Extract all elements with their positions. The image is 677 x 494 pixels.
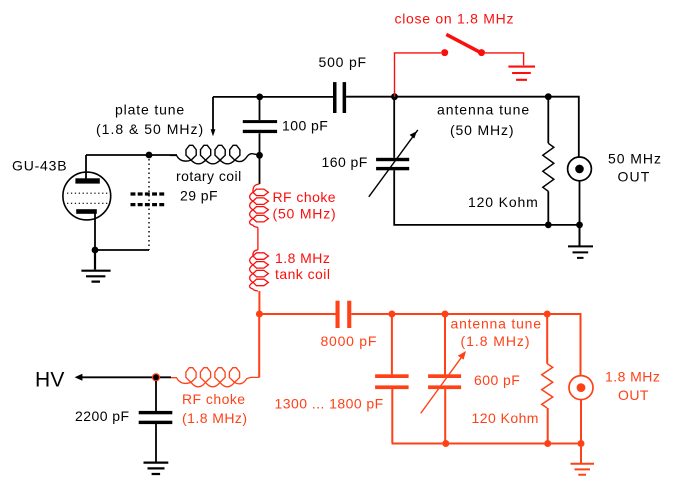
svg-text:close on 1.8 MHz: close on 1.8 MHz [395,11,515,27]
svg-text:plate tune: plate tune [115,102,185,118]
svg-text:(50 MHz): (50 MHz) [450,122,514,138]
junction dot (switch tap) [391,93,398,100]
tube anode wire [85,155,87,179]
wire plate to coil [86,154,177,156]
wire switch to ground [485,53,524,65]
resistor 120 Kohm (1.8 MHz) [542,364,553,408]
tube cathode bar [76,209,97,214]
svg-text:OUT: OUT [618,387,649,403]
svg-text:8000 pF: 8000 pF [321,333,378,349]
svg-text:(1.8 MHz): (1.8 MHz) [461,333,531,349]
wire switch riser [395,53,442,97]
inductor rotary coil (variable plate-tune coil) [170,145,260,164]
wire connector bottom [579,181,581,225]
arrow of 600 pF [421,356,463,413]
svg-text:RF choke: RF choke [273,189,337,205]
svg-text:rotary coil: rotary coil [176,168,242,184]
capacitor 600 pF (variable, antenna tune 1.8 MHz) [428,374,461,378]
svg-text:tank coil: tank coil [275,266,330,282]
svg-text:100 pF: 100 pF [282,118,328,134]
svg-text:120 Kohm: 120 Kohm [472,410,539,426]
junction dot (resistor bottom) [545,222,552,229]
tube cathode wire [94,214,96,251]
capacitor 100 pF [243,120,277,123]
arrow of 160 pF [369,130,418,197]
svg-text:600 pF: 600 pF [474,372,520,388]
switch pole dot [441,49,448,56]
wire 600 pF branch [444,314,446,444]
svg-text:50 MHz: 50 MHz [608,151,662,167]
svg-text:1300 ... 1800 pF: 1300 ... 1800 pF [275,396,384,412]
svg-text:120 Kohm: 120 Kohm [468,194,539,210]
svg-text:500 pF: 500 pF [319,54,367,70]
junction dot (resistor top) [545,93,552,100]
capacitor 29 pF (dashed internal capacitance) [131,194,167,205]
wire between chokes [257,228,259,250]
node: dotted stray-capacitance line [148,159,150,250]
junction dot (coil / 100pF / choke node) [256,152,263,159]
svg-text:1.8 MHz: 1.8 MHz [605,369,660,385]
switch blade [446,34,483,53]
wire node A vertical through 100pF [259,97,261,184]
capacitor 2200 pF [139,411,173,414]
svg-text:29 pF: 29 pF [180,188,218,204]
inductor RF choke (50 MHz) [250,184,269,227]
svg-text:(1.8 MHz): (1.8 MHz) [182,410,248,426]
wire 500 pF to antenna-tune box [346,97,579,158]
junction dot (1300 pF top) [388,311,395,318]
svg-text:OUT: OUT [618,169,651,185]
inductor RF choke (1.8 MHz) [171,368,259,387]
junction dot (bottom rail / connector) [578,440,585,447]
junction dot (cathode) [92,247,99,254]
junction dot (600 pF top) [442,311,449,318]
svg-text:1.8 MHz: 1.8 MHz [275,250,330,266]
junction dot (bottom rail / 600 pF) [442,440,449,447]
junction dot (tank node) [256,311,263,318]
svg-text:HV: HV [35,369,65,392]
wire cathode to stray-cap node [95,249,149,251]
capacitor 1300...1800 pF [375,374,409,378]
switch throw dot [478,49,485,56]
capacitor 500 pF [333,82,337,113]
junction dot HV (orange ring, black core) [152,373,160,381]
capacitor 160 pF (variable) [376,158,409,161]
connector 50 MHz OUT [568,157,592,181]
svg-text:GU-43B: GU-43B [12,158,67,174]
ground (switch, red) [508,67,535,80]
junction dot (plate node) [146,152,153,159]
wire arrow feed (rotary coil tap) [213,97,260,130]
svg-text:160 pF: 160 pF [322,154,368,170]
svg-text:antenna tune: antenna tune [451,316,542,332]
connector 1.8 MHz OUT [569,376,593,400]
inductor 1.8 MHz tank coil [250,250,269,291]
wire HV node down [155,381,157,462]
wire 1300 pF branch [392,314,582,444]
svg-text:(50 MHz): (50 MHz) [273,206,337,222]
resistor 120 Kohm (50 MHz) [543,143,554,191]
wire resistor branch [546,314,549,444]
arrow head (coil tap pointer) [211,129,216,136]
tube grid dotted lines [67,193,109,203]
tube anode plate [75,178,99,183]
ground (50 MHz out) [568,225,593,258]
wire RF-choke riser [258,314,260,378]
svg-text:2200 pF: 2200 pF [75,408,130,424]
wire 160 pF branch [394,97,579,225]
svg-text:antenna tune: antenna tune [437,102,530,118]
wire top rail to 8000 pF [259,313,335,315]
ground (tube cathode) [81,250,110,282]
wire top rail 8000 pF to connector riser [351,314,580,376]
wire tank coil to 1.8 MHz node [258,291,260,314]
wire connector bottom [580,400,582,444]
capacitor 8000 pF [336,301,340,328]
junction dot (bottom rail / resistor) [544,440,551,447]
tube GU-43B envelope [63,172,111,220]
svg-text:RF choke: RF choke [182,391,246,407]
ground (2200 pF) [144,463,169,474]
ground (1.8 MHz out) [571,444,595,475]
wire resistor branch [547,97,549,225]
svg-text:(1.8 & 50 MHz): (1.8 & 50 MHz) [96,121,204,137]
wire node A to 500 pF [260,96,334,98]
junction dot node A [256,94,263,101]
junction dot (connector bottom) [576,222,583,229]
HV arrow [79,376,171,378]
junction dot (resistor top, 1.8) [544,311,551,318]
